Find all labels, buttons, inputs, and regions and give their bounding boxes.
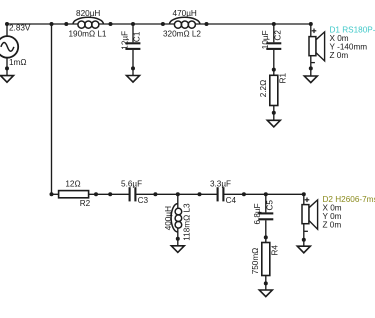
node C1 bottom: [131, 66, 135, 70]
node D1 top: [309, 22, 313, 26]
speaker D2: [302, 194, 318, 246]
wire C4 to D2: [224, 193, 304, 195]
svg-text:470µH: 470µH: [173, 9, 197, 18]
svg-text:R4: R4: [271, 245, 280, 256]
capacitor C4: [218, 187, 224, 201]
svg-text:Z 0m: Z 0m: [330, 51, 349, 60]
speaker D1: [309, 24, 325, 76]
node L3 top: [176, 192, 180, 196]
ground D1: [304, 76, 317, 83]
svg-text:12µF: 12µF: [120, 31, 129, 50]
svg-text:C1: C1: [133, 31, 142, 42]
svg-text:C4: C4: [226, 196, 237, 205]
svg-text:R2: R2: [80, 199, 91, 208]
ground R1: [267, 120, 280, 127]
node L2 right: [205, 22, 209, 26]
inductor L1: [73, 17, 103, 28]
resistor R4: [262, 243, 270, 291]
svg-text:Z 0m: Z 0m: [323, 221, 342, 230]
ground L3: [171, 246, 184, 253]
inductor L3: [171, 194, 182, 246]
svg-text:C3: C3: [138, 196, 149, 205]
node C4 left: [198, 192, 202, 196]
ground D2: [297, 246, 310, 253]
node source bottom: [5, 66, 9, 70]
wire C3 to C4: [136, 193, 217, 195]
capacitor C5: [258, 194, 273, 242]
node C5 top: [264, 192, 268, 196]
node L1 right: [109, 22, 113, 26]
svg-text:2.83V: 2.83V: [9, 24, 31, 33]
svg-text:118mΩ L3: 118mΩ L3: [182, 203, 191, 241]
wire R2 to C3: [89, 193, 129, 195]
svg-text:R1: R1: [279, 72, 288, 83]
ground source: [1, 76, 14, 83]
node C3 right: [153, 192, 157, 196]
ground C1: [127, 76, 140, 83]
resistor R2: [59, 191, 89, 198]
svg-text:C2: C2: [274, 30, 283, 41]
source V1: [0, 24, 18, 76]
svg-text:12Ω: 12Ω: [65, 179, 80, 188]
capacitor C1: [125, 24, 140, 76]
node L1 left: [64, 22, 68, 26]
svg-text:10µF: 10µF: [261, 30, 270, 49]
svg-text:320mΩ L2: 320mΩ L2: [163, 29, 201, 38]
svg-text:400µH: 400µH: [164, 206, 173, 230]
node R4 bottom: [264, 281, 268, 285]
node R2 right: [94, 192, 98, 196]
svg-text:5.6µF: 5.6µF: [121, 179, 142, 188]
capacitor C3: [130, 187, 136, 201]
node L3 bottom: [176, 237, 180, 241]
node D2 bottom: [302, 238, 306, 242]
wire top bus: [7, 23, 78, 25]
svg-text:C5: C5: [266, 200, 275, 211]
node branch junction: [50, 22, 54, 26]
svg-text:1mΩ: 1mΩ: [9, 58, 27, 67]
node D1 bottom: [309, 66, 313, 70]
node R1 bottom: [272, 111, 276, 115]
wire branch vertical: [51, 24, 53, 194]
node source top: [5, 22, 9, 26]
svg-text:6.8µF: 6.8µF: [253, 203, 262, 224]
node C2-R1: [272, 68, 276, 72]
node L2 left: [161, 22, 165, 26]
capacitor C2: [266, 24, 281, 75]
inductor L2: [170, 17, 200, 28]
node D2 top: [302, 192, 306, 196]
ground R4: [259, 290, 272, 297]
svg-text:820µH: 820µH: [76, 9, 100, 18]
svg-text:750mΩ: 750mΩ: [251, 248, 260, 275]
wire bottom bus: [52, 193, 59, 195]
resistor R1: [270, 75, 278, 120]
svg-text:3.3µF: 3.3µF: [210, 179, 231, 188]
node C4 right: [242, 192, 246, 196]
svg-text:2.2Ω: 2.2Ω: [259, 80, 268, 98]
svg-text:D1 RS180P-8: D1 RS180P-8: [330, 25, 375, 34]
node C2 top: [272, 22, 276, 26]
svg-text:190mΩ L1: 190mΩ L1: [69, 29, 107, 38]
node C3 left: [108, 192, 112, 196]
svg-text:D2 H2606-7msd: D2 H2606-7msd: [323, 195, 375, 204]
node bottom bend: [50, 192, 54, 196]
node C5-R4: [264, 235, 268, 239]
node C1 top: [131, 22, 135, 26]
